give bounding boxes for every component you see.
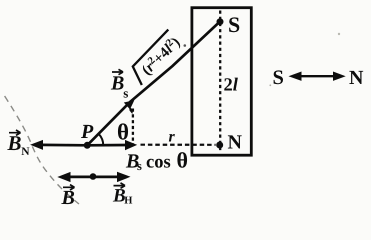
svg-text:s: s [123, 86, 128, 101]
wire dotted magnet axis [219, 11, 221, 153]
vector Bs arrowhead on diagonal [124, 100, 135, 109]
svg-text:N: N [21, 146, 30, 158]
svg-text:S: S [273, 67, 284, 89]
node S pole dot [217, 18, 224, 25]
svg-text:2l: 2l [224, 76, 239, 96]
svg-text:θ: θ [177, 148, 188, 173]
svg-text:cos: cos [146, 152, 171, 172]
node center dot between B and BH [90, 173, 97, 180]
wire dashed meridian line lower-left [5, 96, 79, 204]
svg-text:r: r [169, 129, 176, 146]
svg-text:B: B [110, 73, 124, 95]
speck left of compass S [269, 84, 271, 86]
speck top right [338, 33, 340, 35]
radical tick and vinculum [133, 30, 169, 85]
wire vertical dashed drop from Bs arrowhead [132, 109, 134, 144]
svg-text:S: S [228, 12, 240, 37]
label B vector [61, 185, 75, 209]
angle arc theta [99, 134, 103, 145]
wire diagonal P to S [87, 22, 220, 146]
label BH vector [112, 183, 132, 207]
dot period after radical [184, 44, 187, 47]
vector BN arrow pointing left from P [41, 144, 87, 147]
label sqrt expression (r^2+4l^2) rotated [138, 34, 183, 79]
svg-text:H: H [124, 196, 132, 207]
vector compass double arrow [299, 75, 337, 77]
wire dashed r line to N pole [141, 144, 216, 146]
vector Bs-cos-theta horizontal arrow from P [87, 144, 126, 147]
svg-text:θ: θ [117, 120, 129, 145]
svg-text:N: N [228, 132, 243, 154]
vector B and BH double-headed arrow [66, 176, 120, 179]
bar magnet rectangle [192, 8, 251, 156]
label Bs cos theta [125, 148, 188, 173]
node P dot [84, 142, 91, 149]
label Bs vector [110, 69, 128, 100]
label BN vector [7, 130, 31, 158]
svg-text:N: N [349, 67, 364, 89]
svg-text:P: P [80, 121, 94, 143]
svg-text:s: s [137, 159, 142, 173]
svg-text:B: B [61, 187, 75, 209]
svg-text:B: B [7, 131, 22, 155]
node N pole dot [216, 142, 223, 149]
